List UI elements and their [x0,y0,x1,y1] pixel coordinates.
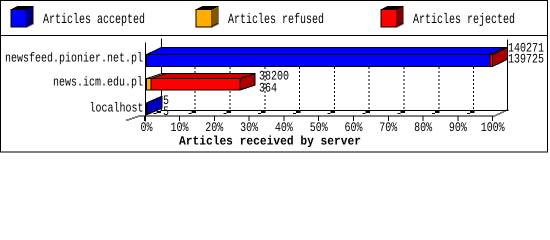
svg-text:5: 5 [163,104,169,119]
svg-text:0%: 0% [141,120,153,135]
svg-text:100%: 100% [481,120,505,135]
svg-text:50%: 50% [310,120,328,135]
svg-text:Articles received by server: Articles received by server [179,135,361,149]
svg-text:40%: 40% [275,120,293,135]
svg-text:364: 364 [259,81,277,96]
svg-text:Articles accepted: Articles accepted [43,12,145,28]
svg-text:Articles refused: Articles refused [228,12,324,28]
svg-text:90%: 90% [449,120,467,135]
svg-text:60%: 60% [345,120,363,135]
svg-text:80%: 80% [414,120,432,135]
svg-text:139725: 139725 [508,51,544,66]
svg-text:Articles rejected: Articles rejected [413,12,515,28]
svg-text:newsfeed.pionier.net.pl: newsfeed.pionier.net.pl [5,51,143,66]
svg-text:30%: 30% [240,120,258,135]
svg-text:news.icm.edu.pl: news.icm.edu.pl [53,75,143,90]
svg-text:localhost: localhost [90,101,144,116]
svg-text:70%: 70% [379,120,397,135]
svg-text:10%: 10% [171,120,189,135]
svg-text:20%: 20% [205,120,223,135]
